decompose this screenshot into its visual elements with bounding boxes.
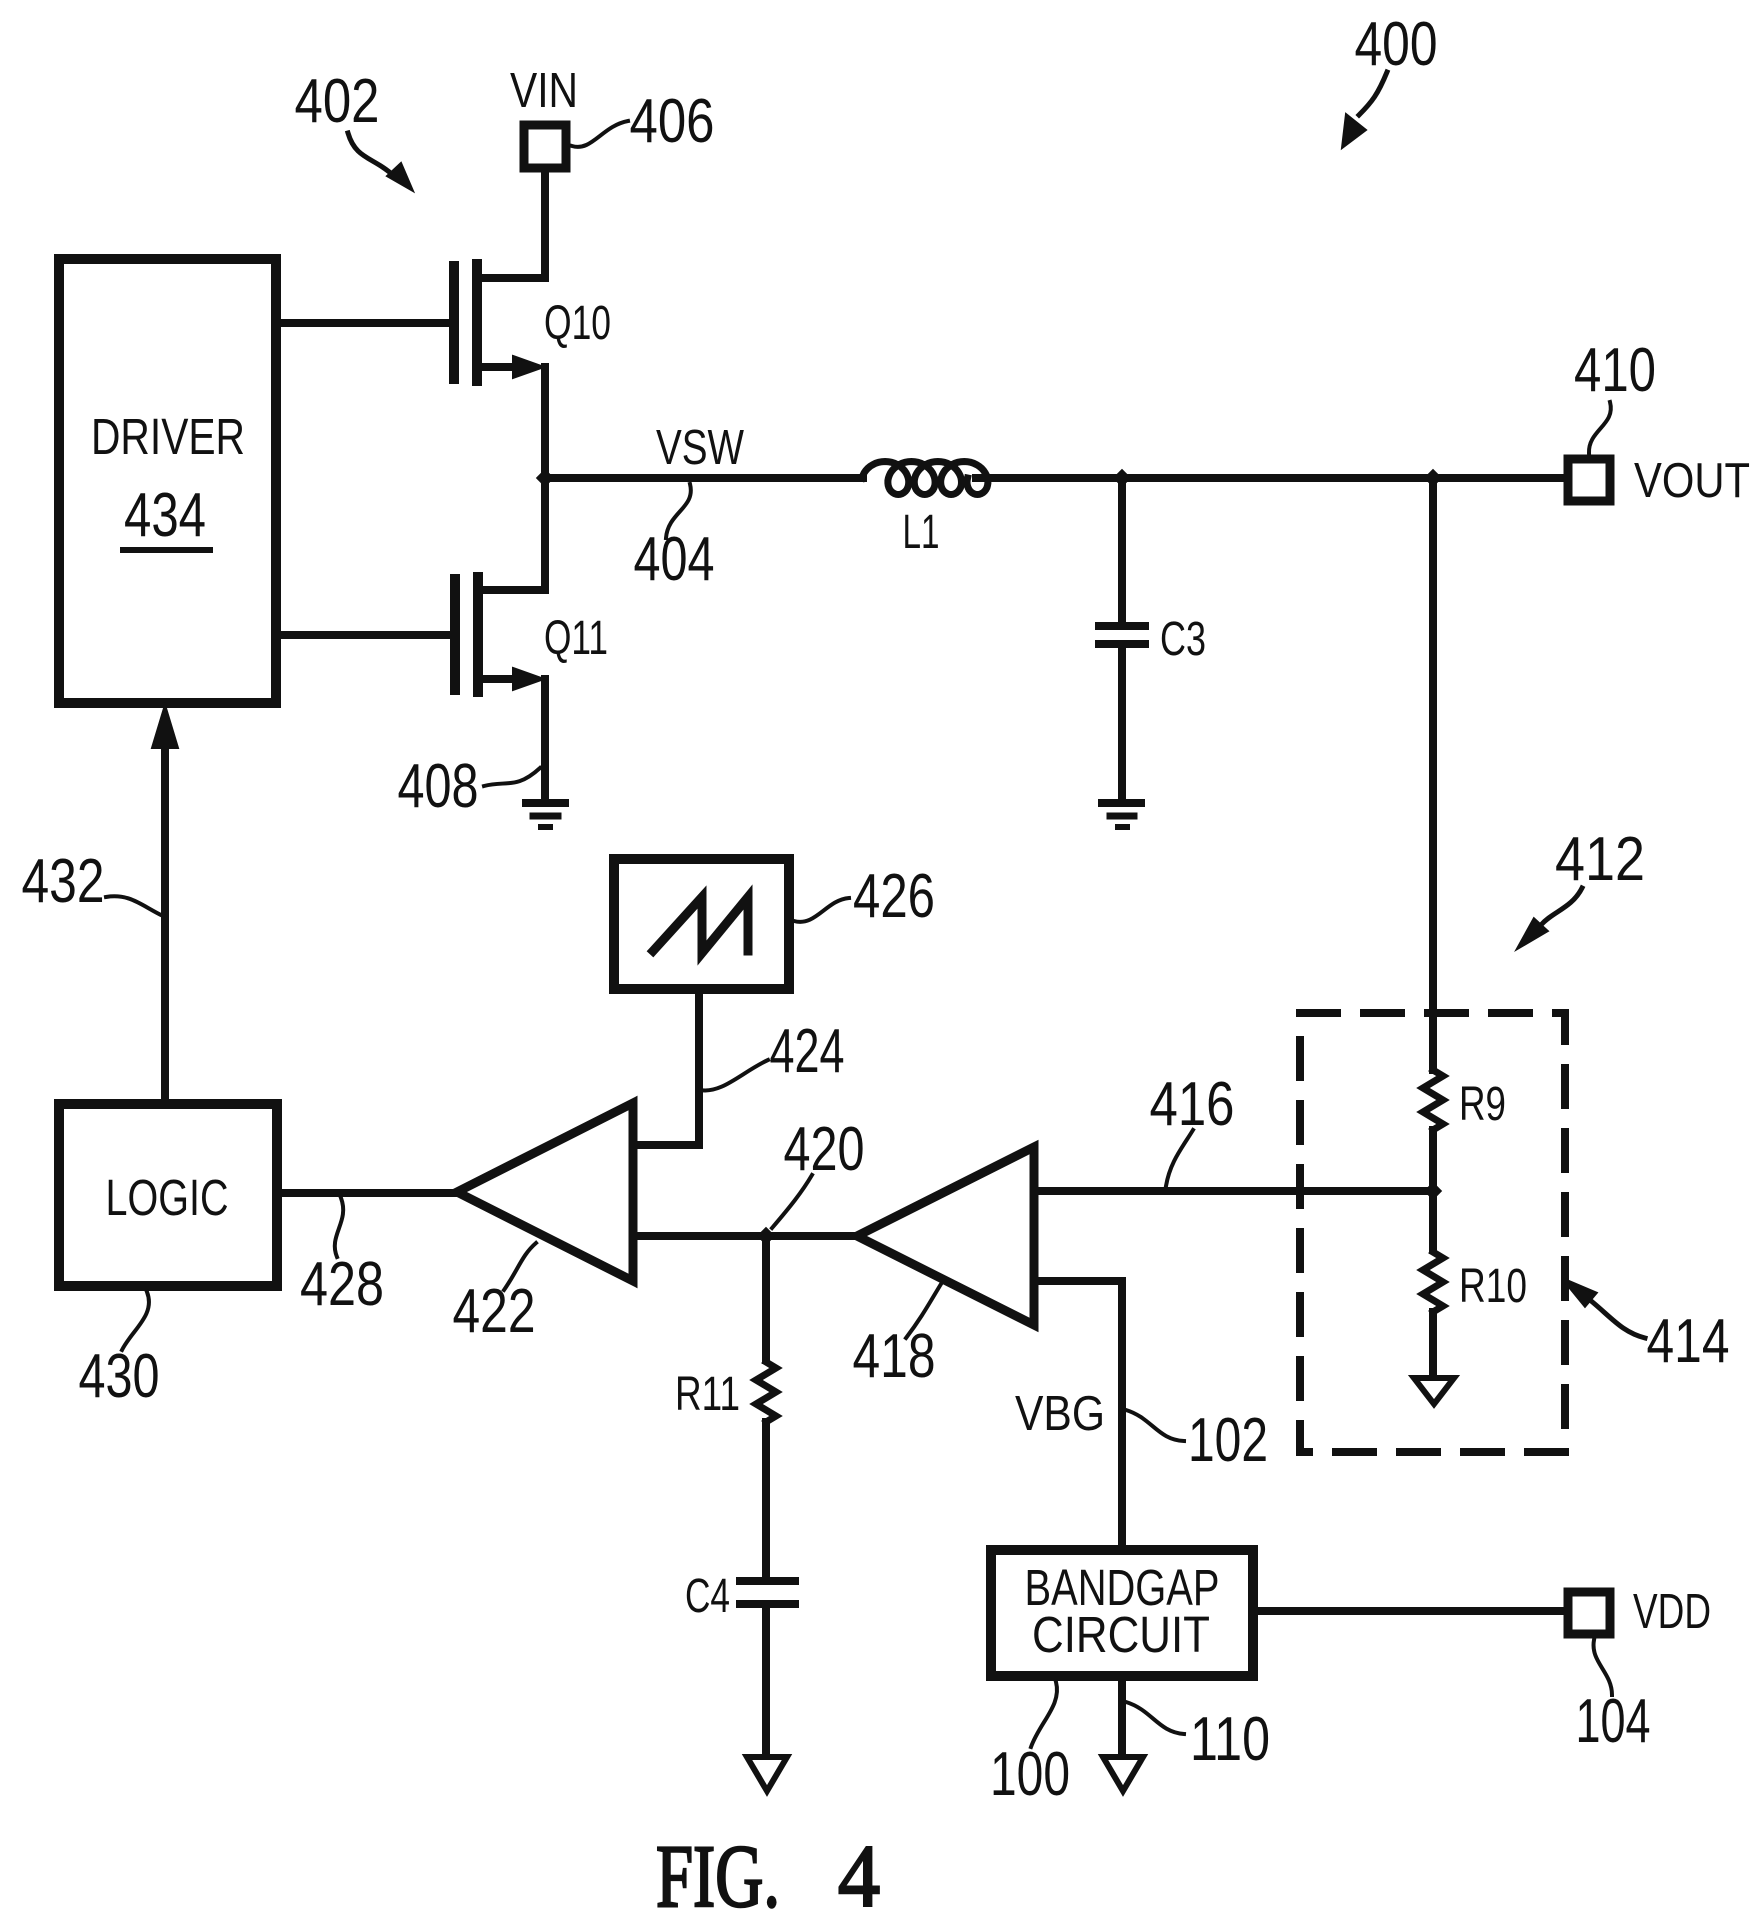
wire R11 to C4 <box>762 1422 770 1581</box>
svg-text:110: 110 <box>1190 1705 1270 1774</box>
leader 418 <box>906 1284 941 1338</box>
wire VOUT node to pad <box>1433 474 1564 482</box>
wire VSW node to Q11 drain <box>541 478 549 590</box>
node C3 junction <box>1113 469 1131 487</box>
leader 432 <box>106 896 163 916</box>
wire C4 to ground <box>762 1604 770 1755</box>
svg-text:430: 430 <box>79 1342 160 1411</box>
leader 410 <box>1589 402 1611 453</box>
pad VIN <box>524 125 566 168</box>
svg-text:VDD: VDD <box>1633 1585 1711 1639</box>
leader arrow for 412 <box>1518 888 1582 948</box>
svg-text:410: 410 <box>1574 336 1656 405</box>
ground arrow under bandgap <box>1103 1757 1143 1791</box>
wire L1 to C3 node <box>976 474 1122 482</box>
svg-text:R9: R9 <box>1459 1078 1506 1131</box>
wire C3 to ground <box>1118 644 1126 800</box>
resistor R10 <box>1423 1252 1443 1312</box>
svg-text:418: 418 <box>853 1322 936 1391</box>
transistor Q10 <box>280 264 544 381</box>
wire C3 node down <box>1118 478 1126 622</box>
wire 420 between amps <box>633 1232 857 1240</box>
svg-text:406: 406 <box>630 87 715 156</box>
svg-text:L1: L1 <box>903 506 940 559</box>
svg-text:FIG.: FIG. <box>656 1828 780 1922</box>
leader 428 <box>335 1198 343 1257</box>
op-amp error amp 418 <box>857 1147 1034 1325</box>
svg-text:C4: C4 <box>685 1570 730 1623</box>
inductor L1 <box>862 462 988 495</box>
svg-text:Q11: Q11 <box>544 612 608 665</box>
node VSW junction <box>536 469 554 487</box>
wire Q10 source to VSW node <box>541 367 549 478</box>
svg-text:428: 428 <box>300 1250 384 1319</box>
op-amp comparator 422 <box>457 1103 633 1281</box>
label BANDGAP CIRCUIT <box>1025 1559 1220 1663</box>
leader 404 <box>666 484 691 538</box>
svg-text:404: 404 <box>634 525 715 594</box>
node VOUT junction <box>1424 469 1442 487</box>
wire R9 to node <box>1429 1130 1437 1191</box>
svg-text:408: 408 <box>398 752 479 821</box>
ground under C3 <box>1102 803 1141 827</box>
wire 416 error amp to divider <box>1034 1187 1433 1195</box>
ground arrow under C4 <box>747 1757 787 1791</box>
leader 422 <box>504 1243 536 1290</box>
node 416 junction <box>1424 1182 1442 1200</box>
capacitor C3 <box>1099 626 1145 644</box>
svg-text:Q10: Q10 <box>544 297 611 350</box>
leader 430 <box>122 1292 149 1350</box>
svg-text:C3: C3 <box>1160 613 1206 666</box>
leader 100 <box>1031 1682 1057 1747</box>
svg-text:434: 434 <box>124 481 206 550</box>
leader 424 <box>700 1060 768 1090</box>
wire VOUT branch down to R9 <box>1429 478 1437 1070</box>
box LOGIC 430 <box>59 1104 277 1286</box>
dashed feedback box 412 <box>1300 1013 1565 1452</box>
wire node to R10 <box>1429 1191 1437 1250</box>
box DRIVER 434 <box>59 259 276 703</box>
wire 418 lower input to VBG <box>1034 1281 1122 1549</box>
capacitor C4 <box>740 1581 795 1604</box>
label 434 underlined <box>123 481 210 550</box>
wire 432 logic to driver <box>161 742 169 1104</box>
leader arrow for 414 <box>1563 1279 1645 1338</box>
svg-text:402: 402 <box>295 67 380 136</box>
svg-text:R10: R10 <box>1459 1260 1527 1313</box>
wire 424 ramp to comparator <box>633 993 699 1145</box>
svg-text:R11: R11 <box>675 1368 740 1421</box>
wire C3 node to VOUT node <box>1122 474 1433 482</box>
svg-text:420: 420 <box>784 1115 865 1184</box>
pad VDD <box>1568 1592 1610 1634</box>
svg-text:400: 400 <box>1355 10 1438 79</box>
leader arrow for 400 <box>1342 72 1387 148</box>
wire 428 comparator to logic <box>277 1189 457 1197</box>
pad VOUT <box>1568 459 1610 501</box>
resistor R9 <box>1423 1070 1443 1130</box>
wire node 420 down to R11 <box>762 1236 770 1360</box>
svg-text:VBG: VBG <box>1015 1387 1105 1441</box>
sawtooth icon <box>653 897 748 953</box>
resistor R11 <box>756 1362 776 1422</box>
svg-text:4: 4 <box>838 1828 880 1922</box>
svg-text:104: 104 <box>1576 1687 1651 1756</box>
box ramp oscillator 426 <box>614 859 789 989</box>
wire R10 to ground <box>1429 1312 1437 1376</box>
svg-text:412: 412 <box>1555 825 1645 894</box>
svg-text:CIRCUIT: CIRCUIT <box>1032 1606 1210 1663</box>
wire bandgap to VDD pad <box>1253 1607 1564 1615</box>
svg-text:100: 100 <box>990 1740 1070 1809</box>
svg-text:VOUT: VOUT <box>1634 454 1750 508</box>
leader 408 <box>484 768 540 786</box>
svg-text:VSW: VSW <box>656 421 745 475</box>
wire bandgap to ground <box>1118 1676 1126 1755</box>
svg-text:432: 432 <box>22 847 105 916</box>
arrowhead 432 <box>152 705 178 748</box>
svg-text:422: 422 <box>453 1277 536 1346</box>
wire VSW to L1 <box>545 474 863 482</box>
wire VIN to Q10 drain <box>477 168 545 278</box>
leader 406 <box>572 121 628 147</box>
leader 110 <box>1126 1702 1184 1734</box>
ground under Q11 <box>526 803 565 827</box>
svg-text:414: 414 <box>1647 1307 1730 1376</box>
leader 426 <box>794 898 849 922</box>
leader 420 <box>772 1175 812 1228</box>
ground arrow under R10 <box>1414 1378 1454 1404</box>
svg-text:VIN: VIN <box>510 64 578 118</box>
svg-text:102: 102 <box>1188 1406 1268 1475</box>
leader 104 <box>1594 1640 1612 1695</box>
wire Q11 source to ground <box>541 679 549 800</box>
svg-text:426: 426 <box>853 862 935 931</box>
leader 416 <box>1166 1130 1193 1186</box>
svg-text:DRIVER: DRIVER <box>91 408 245 465</box>
leader arrow for 402 <box>348 133 413 191</box>
svg-text:424: 424 <box>770 1017 845 1086</box>
leader 102 <box>1126 1410 1184 1441</box>
transistor Q11 <box>280 577 545 692</box>
node 420 junction <box>757 1227 775 1245</box>
box BANDGAP CIRCUIT 100 <box>991 1550 1253 1676</box>
svg-text:LOGIC: LOGIC <box>106 1169 229 1226</box>
